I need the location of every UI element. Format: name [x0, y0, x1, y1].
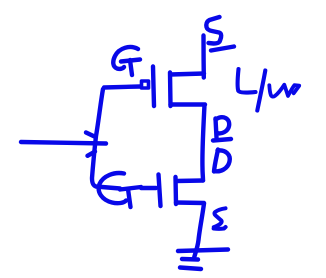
transistor Q2 NMOS channel bar — [173, 177, 178, 204]
label D (drain of NMOS) — [214, 150, 218, 172]
label S top — [206, 17, 221, 44]
label G bottom — [99, 173, 126, 203]
node A junction vertical (gate net) — [92, 89, 120, 189]
arrowhead at input node — [86, 133, 96, 138]
transistor Q2 NMOS drain stub — [176, 178, 203, 183]
ground bar 2 — [182, 257, 198, 262]
ground bar 3 — [180, 268, 201, 270]
transistor Q2 NMOS gate bar — [159, 175, 161, 207]
wire source of NMOS down to ground — [194, 204, 204, 258]
label S bottom — [214, 208, 226, 228]
transistor Q1 PMOS gate bubble — [142, 81, 149, 88]
wire gate of NMOS — [141, 186, 156, 190]
wire gate of PMOS (horizontal to bubble) — [104, 87, 140, 88]
transistor Q2 NMOS source stub — [176, 200, 204, 205]
label S top underline — [211, 47, 234, 51]
label G top — [113, 47, 138, 69]
label L/W — [238, 69, 256, 93]
transistor Q1 PMOS source stub — [171, 74, 205, 75]
transistor Q1 PMOS channel bar — [168, 73, 173, 107]
wire drain of PMOS down to NMOS drain — [202, 105, 204, 181]
wire source of PMOS up to S — [201, 36, 206, 78]
label B — [216, 119, 217, 138]
wire input horizontal — [21, 142, 106, 144]
transistor Q1 PMOS drain stub — [171, 102, 206, 106]
transistor Q1 PMOS gate bar — [153, 67, 154, 107]
ground bar 1 — [178, 250, 228, 252]
